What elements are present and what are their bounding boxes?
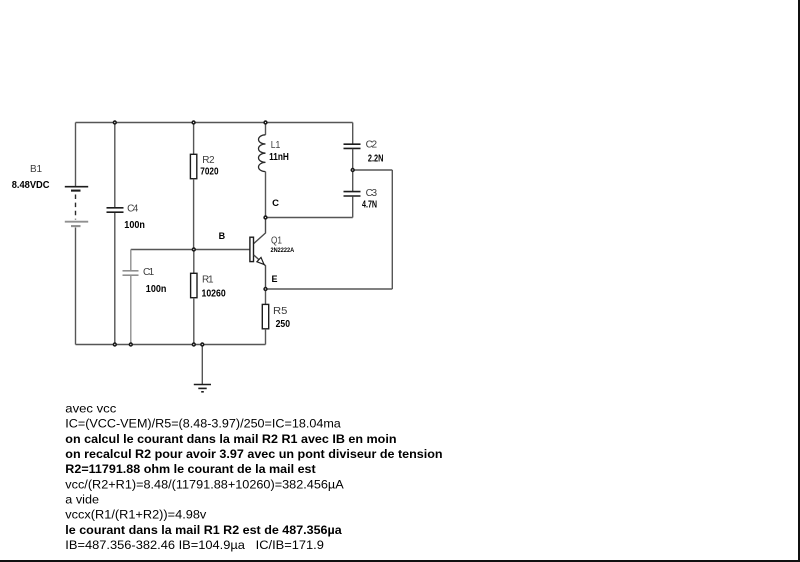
node C1 bottom — [129, 343, 132, 346]
wire L1 branch upper — [265, 123, 267, 135]
svg-text:a vide: a vide — [65, 493, 99, 507]
wire R1 branch lower — [193, 298, 195, 345]
wire left vertical lower — [75, 228, 77, 345]
wire R2 branch upper — [193, 123, 195, 155]
svg-text:7020: 7020 — [200, 166, 219, 177]
svg-text:L1: L1 — [271, 140, 281, 151]
svg-text:vccx(R1/(R1+R2))=4.98v: vccx(R1/(R1+R2))=4.98v — [65, 508, 207, 522]
node E — [264, 288, 267, 291]
window edge right — [798, 0, 800, 562]
wire R5 upper — [265, 289, 267, 304]
wire top rail — [76, 122, 353, 124]
wire R2 branch lower — [193, 179, 195, 250]
wire C2 to junction — [352, 149, 354, 191]
svg-text:vcc/(R2+R1)=8.48/(11791.88+102: vcc/(R2+R1)=8.48/(11791.88+10260)=382.45… — [65, 477, 344, 491]
wire C2 branch upper — [352, 123, 354, 145]
svg-text:avec vcc: avec vcc — [65, 401, 116, 415]
svg-text:le courant dans la mail R1 R2: le courant dans la mail R1 R2 est de 487… — [65, 523, 342, 537]
ground — [194, 385, 211, 392]
svg-text:R2: R2 — [202, 155, 215, 166]
wire C3 lower — [352, 196, 354, 217]
wire left vertical upper (battery top lead) — [75, 123, 77, 187]
wire emitter rail — [266, 288, 393, 290]
wire R1 branch upper — [193, 250, 195, 274]
node base junction — [192, 248, 195, 251]
inductor L1 — [258, 135, 265, 172]
svg-text:R1: R1 — [202, 275, 214, 286]
svg-text:10260: 10260 — [202, 289, 227, 300]
calculation text block — [65, 401, 442, 552]
svg-text:100n: 100n — [146, 284, 167, 295]
wire junction to right branch — [353, 169, 393, 171]
svg-text:11nH: 11nH — [269, 152, 289, 163]
svg-text:C2: C2 — [366, 140, 378, 151]
svg-text:B1: B1 — [30, 164, 42, 175]
node R1 bottom — [192, 343, 195, 346]
capacitor C4 — [107, 208, 124, 212]
capacitor C3 — [344, 192, 361, 196]
svg-text:4.7N: 4.7N — [362, 200, 377, 211]
wire C1 branch upper (gray) — [130, 250, 132, 271]
wire C4 branch upper — [114, 123, 116, 208]
svg-text:2N2222A: 2N2222A — [271, 247, 295, 254]
node C — [264, 216, 267, 219]
battery B1 — [65, 187, 88, 226]
svg-text:on calcul le courant dans la m: on calcul le courant dans la mail R2 R1 … — [65, 432, 396, 446]
svg-text:IB=487.356-382.46 IB=104.9µa: IB=487.356-382.46 IB=104.9µa IC/IB=171.9 — [65, 538, 324, 552]
node L1 top — [264, 121, 267, 124]
resistor R5 — [262, 304, 268, 328]
resistor R1 — [191, 273, 197, 297]
wire C1 branch lower (gray) — [130, 276, 132, 345]
svg-text:250: 250 — [276, 319, 291, 330]
svg-text:E: E — [272, 274, 278, 284]
node C4 top — [113, 121, 116, 124]
svg-text:on recalcul R2 pour avoir 3.97: on recalcul R2 pour avoir 3.97 avec un p… — [65, 447, 442, 461]
svg-text:C: C — [272, 198, 279, 209]
transistor Q1 — [250, 218, 266, 290]
wire C4 branch lower — [114, 213, 116, 345]
svg-text:R5: R5 — [273, 306, 288, 317]
svg-text:C3: C3 — [366, 188, 378, 199]
capacitor C2 — [344, 144, 361, 148]
wire right branch vertical — [391, 170, 393, 289]
svg-text:IC=(VCC-VEM)/R5=(8.48-3.97)/25: IC=(VCC-VEM)/R5=(8.48-3.97)/250=IC=18.04… — [65, 417, 341, 431]
svg-text:100n: 100n — [124, 220, 145, 231]
svg-text:R2=11791.88 ohm le courant de: R2=11791.88 ohm le courant de la mail es… — [65, 462, 315, 476]
wire bottom rail — [76, 344, 266, 346]
svg-text:2.2N: 2.2N — [368, 154, 384, 165]
resistor R2 — [190, 154, 196, 178]
svg-text:B: B — [219, 231, 226, 241]
node R2 top — [192, 121, 195, 124]
wire collector rail (node C to C3) — [266, 217, 353, 219]
wire base rail — [131, 249, 250, 251]
node C4 bottom — [113, 343, 116, 346]
svg-text:Q1: Q1 — [271, 236, 282, 247]
svg-text:C1: C1 — [143, 267, 155, 278]
wire L1 branch lower — [265, 172, 267, 218]
wire ground stem — [201, 345, 203, 385]
svg-text:C4: C4 — [127, 204, 139, 215]
node ground junction — [201, 343, 204, 346]
node C2-C3 junction — [351, 169, 354, 172]
capacitor C1 — [123, 271, 139, 275]
window edge bottom — [0, 560, 800, 562]
wire R5 lower — [265, 329, 267, 345]
svg-text:8.48VDC: 8.48VDC — [12, 179, 50, 191]
